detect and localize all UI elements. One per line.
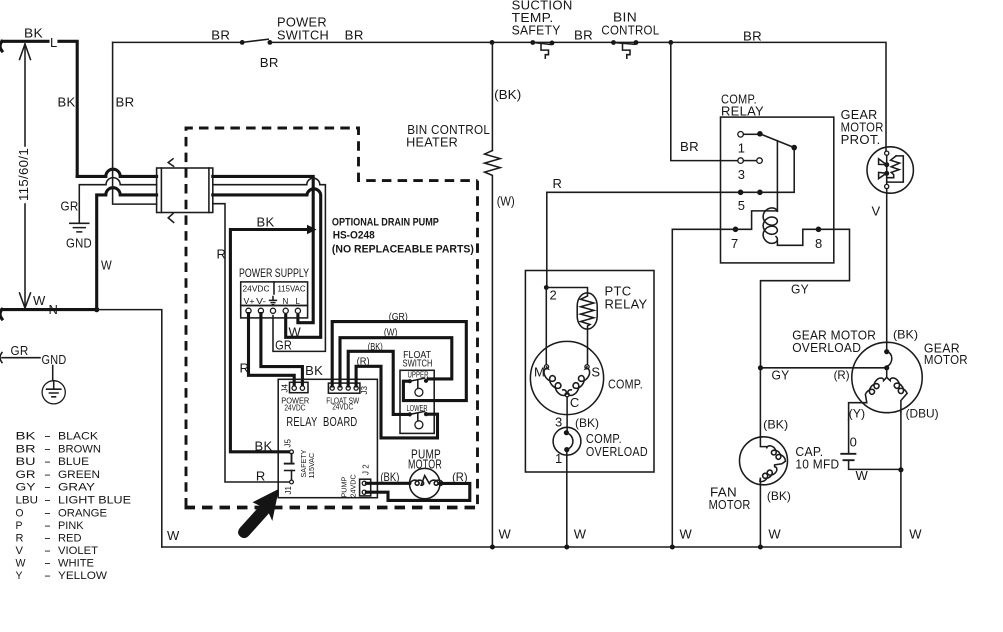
- svg-text:GY: GY: [791, 282, 809, 297]
- svg-text:BR: BR: [574, 28, 593, 43]
- wire R : V+ to J4: [240, 314, 295, 386]
- svg-text:R: R: [240, 361, 250, 376]
- svg-text:(Y): (Y): [849, 406, 866, 420]
- svg-text:OPTIONAL DRAIN PUMP: OPTIONAL DRAIN PUMP: [332, 216, 439, 228]
- svg-text:(BK): (BK): [380, 470, 399, 484]
- svg-text:(W): (W): [497, 195, 515, 209]
- svg-text:WHITE: WHITE: [58, 558, 94, 570]
- svg-text:-: -: [44, 520, 52, 532]
- svg-text:(BK): (BK): [767, 489, 791, 503]
- node junction bin heater: [490, 40, 495, 45]
- junction BR to comp relay: [668, 40, 673, 45]
- svg-text:W: W: [16, 558, 27, 570]
- relay pin 1 and blade: [738, 131, 795, 156]
- svg-text:BR: BR: [345, 28, 364, 43]
- wire BR top rail left of power switch: [113, 41, 240, 43]
- wire R : to comp relay 5 and PTC: [547, 176, 739, 288]
- svg-text:-: -: [44, 507, 52, 519]
- svg-text:Y: Y: [16, 570, 24, 582]
- relay pin 7: [731, 211, 777, 251]
- svg-text:J4: J4: [281, 384, 290, 393]
- svg-text:CONTROL: CONTROL: [601, 23, 659, 38]
- svg-text:W: W: [101, 258, 112, 273]
- svg-text:J5: J5: [284, 439, 293, 448]
- svg-text:COMP.: COMP.: [608, 377, 643, 392]
- node N : incoming white line, left: [0, 293, 97, 319]
- svg-text:(BK): (BK): [763, 418, 788, 432]
- svg-text:-: -: [44, 443, 52, 455]
- svg-text:(BK): (BK): [368, 342, 383, 353]
- svg-text:BK: BK: [305, 363, 323, 378]
- svg-text:V-: V-: [256, 297, 266, 306]
- gear motor B3: [792, 328, 968, 421]
- svg-text:7: 7: [731, 236, 739, 251]
- wire BR from power switch down to connector: [113, 42, 157, 204]
- svg-text:O: O: [16, 507, 24, 519]
- relay coil: [763, 141, 816, 246]
- svg-text:W: W: [909, 527, 922, 542]
- compressor enclosure box: [525, 271, 654, 473]
- switch: bin control: [601, 10, 762, 59]
- node 2 junction: [544, 285, 557, 302]
- wire PTC to S: [587, 329, 589, 365]
- node GND pigtail, left: [0, 343, 67, 367]
- svg-text:P: P: [16, 520, 23, 532]
- svg-text:GR: GR: [16, 469, 36, 481]
- svg-text:(DBU): (DBU): [906, 406, 939, 420]
- connector J4: [281, 382, 310, 412]
- svg-text:-: -: [44, 570, 52, 582]
- svg-text:PUMP: PUMP: [340, 477, 349, 498]
- wire to PTC relay: [546, 288, 587, 294]
- svg-text:MOTOR: MOTOR: [408, 457, 442, 472]
- svg-text:RELAY: RELAY: [605, 297, 648, 312]
- svg-text:L: L: [296, 297, 301, 306]
- svg-text:24VDC: 24VDC: [349, 474, 358, 497]
- wire (W) J3 to upper switch: [340, 327, 452, 386]
- svg-text:RELAY BOARD: RELAY BOARD: [286, 414, 357, 429]
- wire GY pin 8 to gear motor overload: [761, 229, 850, 367]
- svg-text:24VDC: 24VDC: [332, 402, 353, 411]
- optional drain pump dashed enclosure: [185, 128, 479, 508]
- svg-text:PINK: PINK: [58, 520, 84, 532]
- ground symbol in circle: [42, 366, 65, 404]
- relay pin 3: [738, 158, 763, 182]
- pointer arrow to J1: [238, 489, 279, 538]
- svg-text:BK: BK: [16, 431, 37, 443]
- svg-text:LBU: LBU: [16, 495, 39, 507]
- PTC relay R2: [577, 284, 647, 330]
- bottom rail W: [162, 527, 923, 548]
- switch: suction temp safety: [512, 0, 593, 58]
- svg-text:24VDC: 24VDC: [284, 404, 305, 413]
- svg-text:-: -: [44, 482, 52, 494]
- svg-text:(R): (R): [834, 368, 850, 382]
- connector (plug) block: [157, 159, 213, 223]
- junction dots on bottom rail: [490, 545, 495, 550]
- svg-text:W: W: [167, 528, 180, 543]
- svg-text:10 MFD: 10 MFD: [795, 456, 839, 471]
- svg-text:BK: BK: [257, 215, 275, 230]
- upper float switch: [408, 371, 429, 397]
- svg-text:OVERLOAD: OVERLOAD: [792, 340, 861, 355]
- svg-text:UPPER: UPPER: [408, 371, 429, 380]
- wire V protector to gear motor: [886, 189, 888, 343]
- fan motor B2: [709, 368, 791, 547]
- wire (BK) J3 to lower switch: [348, 342, 407, 414]
- winding S-C: [568, 367, 590, 396]
- svg-text:HEATER: HEATER: [406, 135, 458, 150]
- svg-text:GY: GY: [16, 482, 37, 494]
- svg-text:R: R: [217, 247, 227, 262]
- connector J2: [340, 464, 371, 498]
- wire (BK) J2 to pump: [366, 470, 409, 484]
- svg-text:5: 5: [738, 198, 746, 213]
- svg-text:24VDC: 24VDC: [243, 285, 270, 294]
- svg-text:RELAY: RELAY: [721, 104, 764, 119]
- svg-text:BR: BR: [16, 443, 36, 455]
- svg-text:C: C: [570, 395, 580, 410]
- svg-text:RED: RED: [58, 532, 82, 544]
- svg-text:-: -: [44, 532, 52, 544]
- pump motor B1: [408, 447, 443, 499]
- wire node2 to M: [545, 288, 547, 365]
- svg-text:R: R: [256, 469, 266, 484]
- svg-text:(BK): (BK): [575, 416, 599, 430]
- svg-text:W: W: [499, 527, 512, 542]
- wire BR top rail: [270, 42, 886, 151]
- wire BK branch to safety J5: [230, 215, 316, 452]
- wire W from connector to N line: [97, 188, 157, 310]
- svg-text:SWITCH: SWITCH: [403, 357, 433, 369]
- terminals V+ V- gnd N L: [246, 308, 251, 313]
- comp relay K1: [721, 92, 834, 263]
- svg-text:BR: BR: [680, 139, 699, 154]
- svg-text:L: L: [50, 35, 58, 50]
- safety thermostat J5/J1: [255, 439, 317, 495]
- power switch: [211, 15, 363, 71]
- svg-text:GR: GR: [61, 199, 79, 214]
- svg-text:W: W: [768, 527, 781, 542]
- svg-text:3: 3: [738, 167, 746, 182]
- svg-text:(W): (W): [384, 327, 398, 338]
- svg-text:W: W: [33, 293, 46, 308]
- svg-text:GND: GND: [42, 352, 67, 367]
- wire BK from connector to power supply L: [213, 176, 313, 322]
- power supply PS1: [239, 268, 309, 318]
- svg-text:J1: J1: [284, 486, 293, 495]
- svg-text:HS-O248: HS-O248: [333, 230, 375, 242]
- wire BK : V- to J4: [261, 314, 323, 386]
- svg-text:BR: BR: [743, 29, 762, 44]
- svg-text:PROT.: PROT.: [841, 132, 881, 147]
- wire colour legend: [16, 431, 132, 582]
- svg-text:-: -: [44, 558, 52, 570]
- wire C to overload: [555, 397, 599, 430]
- svg-text:N: N: [49, 302, 59, 317]
- ground GND (chassis): [66, 223, 92, 250]
- dimension line 115/60/1: [16, 44, 31, 308]
- svg-text:OVERLOAD: OVERLOAD: [586, 444, 648, 459]
- junction GY: [758, 365, 763, 370]
- svg-text:SAFETY: SAFETY: [512, 23, 561, 38]
- svg-text:8: 8: [815, 236, 823, 251]
- svg-text:BK: BK: [255, 439, 273, 454]
- svg-text:BROWN: BROWN: [58, 443, 101, 455]
- svg-text:-: -: [44, 431, 52, 443]
- svg-text:115VAC: 115VAC: [278, 285, 306, 294]
- svg-text:N: N: [283, 297, 289, 306]
- svg-text:GREEN: GREEN: [58, 469, 100, 481]
- svg-text:(R): (R): [452, 470, 468, 484]
- svg-text:R: R: [16, 532, 24, 544]
- svg-text:-: -: [44, 469, 52, 481]
- svg-text:(GR): (GR): [389, 312, 408, 323]
- svg-text:1: 1: [738, 141, 746, 156]
- wire GR from connector to power supply ground: [213, 178, 326, 351]
- wire BR to relay pin 3: [671, 42, 739, 160]
- wire GY to gear motor: [761, 368, 885, 383]
- svg-text:(BK): (BK): [494, 88, 521, 102]
- wire (R) J3 to lower switch: [356, 357, 437, 438]
- wire (GR) J3 to upper switch: [332, 312, 466, 400]
- svg-text:VIOLET: VIOLET: [58, 545, 98, 557]
- svg-text:115/60/1: 115/60/1: [16, 148, 31, 201]
- wire GR from connector to GND: [61, 178, 157, 223]
- capacitor C1: [795, 420, 899, 483]
- wire (R) pump return to J2: [366, 470, 469, 500]
- svg-text:W: W: [680, 527, 693, 542]
- relay board RB1: [278, 379, 377, 497]
- svg-text:V: V: [16, 545, 24, 557]
- relay pin 8: [815, 227, 823, 252]
- junction W/N: [94, 307, 99, 312]
- svg-text:S: S: [591, 365, 600, 380]
- svg-text:115VAC: 115VAC: [307, 453, 316, 479]
- svg-text:GY: GY: [772, 368, 790, 383]
- svg-text:GR: GR: [275, 338, 292, 353]
- svg-text:-: -: [44, 456, 52, 468]
- gear motor overload element: [886, 343, 888, 352]
- float switch S2: [400, 349, 434, 433]
- wire overload to bottom rail: [566, 452, 568, 547]
- svg-text:R: R: [553, 176, 563, 191]
- svg-text:W: W: [574, 527, 587, 542]
- svg-text:-: -: [44, 495, 52, 507]
- svg-text:BU: BU: [16, 456, 36, 468]
- svg-text:J3: J3: [360, 386, 369, 395]
- svg-text:GRAY: GRAY: [58, 482, 96, 494]
- svg-text:GND: GND: [66, 236, 92, 251]
- svg-text:BLUE: BLUE: [58, 456, 89, 468]
- compressor motor COMP: [530, 341, 643, 414]
- lower float switch: [407, 404, 429, 429]
- svg-text:0: 0: [850, 435, 858, 450]
- svg-text:MOTOR: MOTOR: [924, 352, 968, 367]
- svg-text:2: 2: [550, 288, 558, 303]
- svg-text:BK: BK: [58, 95, 76, 110]
- svg-text:BLACK: BLACK: [58, 431, 99, 443]
- svg-text:V: V: [872, 204, 881, 219]
- comp overload OL1: [553, 427, 648, 466]
- wire W from connector to power supply N: [213, 189, 321, 337]
- svg-text:MOTOR: MOTOR: [709, 497, 751, 512]
- node L : incoming black line, top-left: [0, 26, 58, 52]
- svg-text:(BK): (BK): [893, 328, 918, 342]
- svg-text:1: 1: [555, 451, 563, 466]
- wire pin 7 to bottom rail: [672, 229, 735, 547]
- relay pin 5: [738, 190, 794, 214]
- junction cap/DBU: [898, 467, 903, 472]
- svg-text:(NO REPLACEABLE PARTS): (NO REPLACEABLE PARTS): [332, 243, 474, 255]
- svg-text:BR: BR: [116, 95, 135, 110]
- svg-text:J 2: J 2: [362, 464, 371, 475]
- svg-text:V+: V+: [244, 297, 255, 306]
- svg-text:YELLOW: YELLOW: [58, 570, 108, 582]
- connector J3: [326, 383, 369, 411]
- svg-text:3: 3: [555, 415, 563, 430]
- svg-text:LIGHT BLUE: LIGHT BLUE: [58, 495, 131, 507]
- svg-text:(R): (R): [357, 357, 370, 368]
- wire (DBU) to bottom rail: [900, 412, 902, 469]
- wire R from connector to J1: [213, 204, 290, 482]
- svg-text:POWER SUPPLY: POWER SUPPLY: [239, 268, 309, 280]
- svg-text:-: -: [44, 545, 52, 557]
- svg-text:BR: BR: [260, 55, 279, 70]
- svg-text:SWITCH: SWITCH: [277, 28, 329, 43]
- wire bin control heater: [406, 42, 521, 546]
- svg-text:BR: BR: [211, 28, 230, 43]
- winding M-C: [544, 367, 567, 396]
- gear motor windings: [886, 368, 888, 378]
- blade common node to pin 5: [791, 145, 797, 193]
- svg-text:W: W: [856, 468, 869, 483]
- svg-text:ORANGE: ORANGE: [58, 507, 107, 519]
- svg-text:BK: BK: [24, 26, 43, 41]
- gear motor protector: [841, 107, 914, 219]
- wire BK from L down to connector: [58, 41, 157, 176]
- svg-text:GR: GR: [11, 343, 29, 358]
- wire W to bottom rail: [97, 310, 162, 547]
